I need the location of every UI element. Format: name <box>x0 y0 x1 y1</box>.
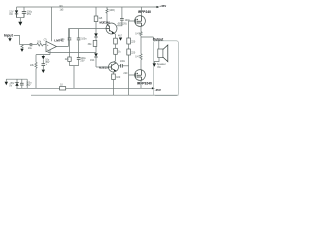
wire cap stub <box>23 7 25 12</box>
svg-text:100: 100 <box>116 76 121 79</box>
svg-text:47p: 47p <box>60 38 65 41</box>
svg-text:IRFP9240: IRFP9240 <box>137 82 152 86</box>
diode D3 <box>94 53 98 56</box>
resistor R3 series <box>37 43 46 46</box>
diode D2 <box>94 33 98 36</box>
wire output node <box>141 37 153 41</box>
svg-text:1k5: 1k5 <box>60 9 65 12</box>
capacitor C4 <box>78 29 80 38</box>
resistor R14 <box>127 38 131 44</box>
svg-text:1N4: 1N4 <box>90 59 95 62</box>
svg-text:100p: 100p <box>125 19 131 22</box>
svg-text:0.47: 0.47 <box>135 55 140 58</box>
capacitor C2 input <box>30 43 32 46</box>
capacitor C5 <box>77 57 81 59</box>
wire emitter to bias chain <box>114 33 115 38</box>
capacitor C8 <box>119 65 121 67</box>
svg-text:+: + <box>47 43 49 47</box>
svg-text:10u: 10u <box>28 47 33 50</box>
svg-text:Input: Input <box>4 33 13 37</box>
mosfet Q4 IRFP9240 <box>135 70 146 81</box>
wire bottom rail -45V <box>16 87 152 89</box>
wire input drop <box>19 35 21 44</box>
wire Q2 emitter down <box>113 72 115 74</box>
resistor R18 <box>60 87 66 90</box>
op-amp U1 LM741 <box>46 41 57 51</box>
resistor R10 <box>114 38 118 44</box>
wire input run <box>20 44 31 46</box>
capacitor C9 <box>21 79 23 83</box>
svg-text:8Ω: 8Ω <box>157 66 160 69</box>
resistor R13 <box>112 74 116 80</box>
svg-text:(10R): (10R) <box>109 9 115 12</box>
diode D4 <box>119 38 122 41</box>
wire Vminus net <box>36 50 50 55</box>
ground <box>19 18 21 22</box>
wire inverting feedback run <box>48 51 96 53</box>
node top rail arrow <box>157 6 160 8</box>
svg-text:+45V: +45V <box>159 4 166 8</box>
svg-text:25V: 25V <box>26 84 31 87</box>
node Vminus arrow <box>42 55 44 56</box>
wire ground rail <box>31 94 178 96</box>
wire cluster bottom <box>70 66 79 89</box>
svg-text:25V: 25V <box>27 13 32 16</box>
capacitor C3 <box>69 29 71 38</box>
capacitor C1 <box>22 12 26 18</box>
svg-text:-45V: -45V <box>155 88 161 92</box>
capacitor C6 <box>42 59 44 63</box>
zener D1 <box>15 10 18 13</box>
speaker box <box>154 41 179 96</box>
capacitor C7 <box>121 7 123 18</box>
resistor R6 <box>95 7 97 16</box>
wire zener stub <box>16 7 18 10</box>
svg-text:25V: 25V <box>80 59 85 62</box>
wire gate column <box>129 21 135 95</box>
svg-text:0V: 0V <box>9 85 12 88</box>
svg-text:0.47: 0.47 <box>135 33 140 36</box>
svg-text:100n: 100n <box>81 37 87 40</box>
zener D5 <box>16 79 18 82</box>
svg-text:4k7: 4k7 <box>118 35 123 38</box>
svg-text:220: 220 <box>131 40 136 43</box>
wire top rail +45V <box>17 6 157 8</box>
speaker LS1 <box>158 49 163 58</box>
resistor R4 <box>68 57 71 61</box>
resistor R11 <box>114 48 118 54</box>
wire input <box>10 35 20 38</box>
wire <box>32 44 37 46</box>
wire op-amp output <box>57 29 107 47</box>
wire speaker feed <box>158 41 160 49</box>
resistor R7 <box>93 40 97 46</box>
wire joining <box>17 17 25 19</box>
wire op-amp V+ <box>51 7 53 41</box>
resistor R16 source <box>140 32 142 36</box>
wire negative zener feed <box>6 79 27 88</box>
ground input <box>8 38 11 41</box>
resistor R17 source <box>140 54 142 60</box>
svg-text:IRFP240: IRFP240 <box>138 10 151 14</box>
supply arrow <box>5 79 7 82</box>
resistor R2 to ground <box>21 45 23 49</box>
resistor R15 <box>127 49 131 55</box>
resistor R8 collector <box>106 7 108 24</box>
resistor R5 <box>35 55 37 89</box>
svg-text:100n: 100n <box>120 60 126 63</box>
svg-text:220: 220 <box>131 51 136 54</box>
ground C6 <box>42 70 45 73</box>
svg-text:220: 220 <box>123 72 128 75</box>
